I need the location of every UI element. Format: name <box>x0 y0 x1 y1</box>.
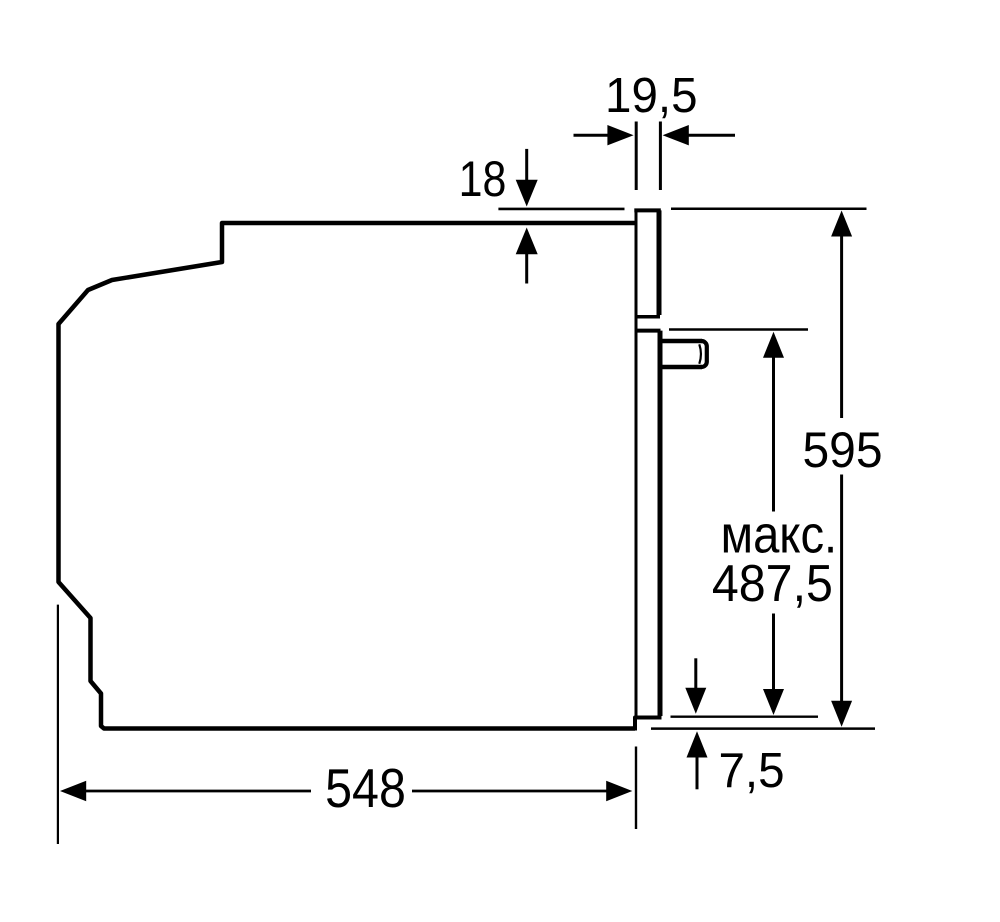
arrowhead 19,5 right <box>663 125 689 145</box>
arrowhead 487,5 up <box>763 332 784 358</box>
extension line 548 left <box>57 605 59 844</box>
extension line 19,5 right <box>659 122 662 191</box>
dimension line 7,5 upper <box>694 658 697 689</box>
svg-text:18: 18 <box>459 151 507 207</box>
arrowhead 7,5 down <box>685 688 706 714</box>
oven body outline <box>59 223 637 729</box>
arrowhead 18 down <box>516 180 538 207</box>
arrowhead 595 up <box>831 211 852 237</box>
dimension line 487,5 lower <box>772 614 775 691</box>
svg-text:487,5: 487,5 <box>712 554 833 612</box>
dimension line 595 upper <box>840 235 843 418</box>
reference line top of door (18 dim) <box>498 208 624 211</box>
svg-text:19,5: 19,5 <box>605 68 697 123</box>
extension line 19,5 left <box>635 122 638 191</box>
arrowhead 7,5 up <box>687 731 708 757</box>
svg-text:595: 595 <box>802 422 882 478</box>
svg-text:548: 548 <box>325 757 406 819</box>
dimension line 18 lower <box>525 253 528 284</box>
dimension line 487,5 upper <box>772 356 775 512</box>
reference line door bottom (7,5) <box>671 716 819 718</box>
extension line 548 right <box>635 747 637 830</box>
arrowhead 18 up <box>516 228 538 255</box>
door left edge <box>635 209 638 717</box>
arrowhead 487,5 down <box>763 689 784 715</box>
dimension line 19,5 right <box>688 134 735 137</box>
reference line max 487,5 <box>669 328 808 330</box>
door bottom step <box>635 718 662 731</box>
door notch lower <box>636 329 661 333</box>
arrowhead 548 left <box>60 781 86 801</box>
handle end cap <box>702 341 707 367</box>
dimension line 19,5 left <box>574 134 610 137</box>
handle cap inner line <box>699 344 701 364</box>
arrowhead 548 right <box>606 781 632 801</box>
door notch upper <box>636 315 660 319</box>
dimension line 548 right <box>412 790 607 793</box>
arrowhead 595 down <box>831 701 852 727</box>
handle top <box>659 339 702 344</box>
door top edge <box>634 208 661 212</box>
door right edge lower <box>658 331 663 716</box>
svg-text:7,5: 7,5 <box>718 743 784 798</box>
dimension line 548 left <box>85 790 311 793</box>
dimension line 595 lower <box>840 475 843 703</box>
handle bottom <box>659 365 702 370</box>
dimension line 18 upper <box>525 149 528 181</box>
door right edge upper <box>657 210 662 315</box>
arrowhead 19,5 left <box>607 125 633 145</box>
dimension line 7,5 lower <box>696 757 699 790</box>
reference line body bottom <box>651 727 875 730</box>
reference line top right (595 dim) <box>671 208 867 211</box>
